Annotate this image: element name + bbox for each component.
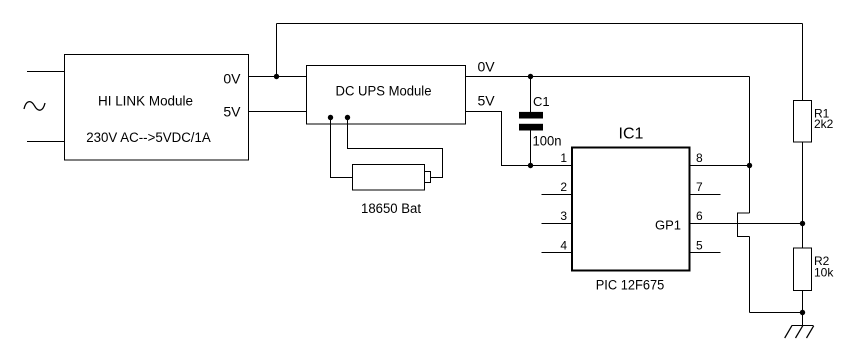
wire jog around GP1 net (738, 213, 750, 237)
wire 0V drop to pin 8 (749, 77, 751, 214)
wire battery negative (331, 118, 353, 178)
wire battery positive (348, 118, 443, 178)
wire pin 3 stub (542, 223, 572, 225)
node junction battery terminal right (345, 115, 350, 120)
svg-text:GP1: GP1 (655, 218, 681, 233)
svg-text:4: 4 (560, 239, 567, 253)
wire pin 2 stub (542, 194, 572, 196)
svg-text:2: 2 (560, 180, 567, 194)
wire pin 8 stub (691, 165, 750, 167)
svg-text:3: 3 (560, 209, 567, 223)
battery B1 18650 body (353, 165, 425, 191)
svg-text:DC UPS Module: DC UPS Module (336, 84, 432, 99)
wire R2 bottom to ground (802, 291, 804, 326)
wire 0V junction up riser (276, 24, 278, 77)
node junction pin 8 (747, 163, 752, 168)
svg-text:C1: C1 (533, 94, 550, 109)
wire 0V DC UPS output rail (466, 76, 750, 78)
node junction 0V riser (274, 74, 279, 79)
wire 0V HI LINK to DC UPS (249, 76, 307, 78)
wires (crisp straight segments) (27, 24, 803, 326)
wire C1 bottom lead (530, 130, 532, 165)
svg-text:5: 5 (696, 239, 703, 253)
svg-text:18650 Bat: 18650 Bat (361, 201, 421, 216)
node junction C1 bottom pin 1 (528, 163, 533, 168)
wire pin 5 stub (691, 252, 721, 254)
svg-text:IC1: IC1 (619, 126, 644, 143)
node junction battery terminal left (328, 115, 333, 120)
wire R1 top drop (802, 24, 804, 101)
battery B1 terminal tab (425, 172, 431, 183)
module HI LINK box (65, 55, 249, 161)
node junction C1 top (528, 74, 533, 79)
wire R1 bottom to GP1 junction (802, 142, 804, 248)
svg-text:PIC 12F675: PIC 12F675 (596, 278, 665, 293)
resistor R1 body (794, 101, 812, 143)
svg-text:100n: 100n (533, 133, 562, 149)
capacitor C1 top plate (519, 112, 543, 119)
wire AC neutral lead (27, 141, 64, 143)
svg-text:10k: 10k (814, 266, 834, 280)
capacitor C1 bottom plate (519, 124, 543, 131)
svg-text:8: 8 (696, 151, 703, 165)
svg-text:6: 6 (696, 209, 703, 223)
svg-text:1: 1 (560, 151, 567, 165)
svg-text:0V: 0V (478, 59, 496, 75)
svg-text:230V AC-->5VDC/1A: 230V AC-->5VDC/1A (86, 130, 211, 145)
wire drop to ground rail (749, 237, 751, 313)
ground symbol (785, 326, 814, 339)
wire pin 6 GP1 net (691, 223, 803, 225)
wire 5V HI LINK to DC UPS (249, 111, 307, 113)
svg-text:HI LINK Module: HI LINK Module (98, 94, 193, 109)
op IC1 PIC 12F675 box (572, 148, 690, 271)
wire pin 4 stub (542, 252, 572, 254)
wire pin 7 stub (691, 194, 721, 196)
svg-text:2k2: 2k2 (814, 117, 834, 131)
node junction GP1 resistor divider (800, 221, 805, 226)
svg-text:7: 7 (696, 180, 703, 194)
wire AC live lead (27, 71, 64, 73)
resistor R2 body (794, 248, 812, 291)
svg-text:0V: 0V (223, 71, 241, 87)
node junction ground (800, 310, 805, 315)
AC source V1 sine symbol (24, 102, 45, 111)
wire C1 top lead (530, 77, 532, 113)
wire top 0V rail to R1 (277, 23, 803, 25)
wire to ground junction (750, 312, 803, 314)
wire 5V DC UPS output (466, 112, 572, 166)
svg-text:5V: 5V (478, 93, 496, 109)
module DC UPS box (307, 66, 466, 125)
svg-text:5V: 5V (223, 104, 241, 120)
